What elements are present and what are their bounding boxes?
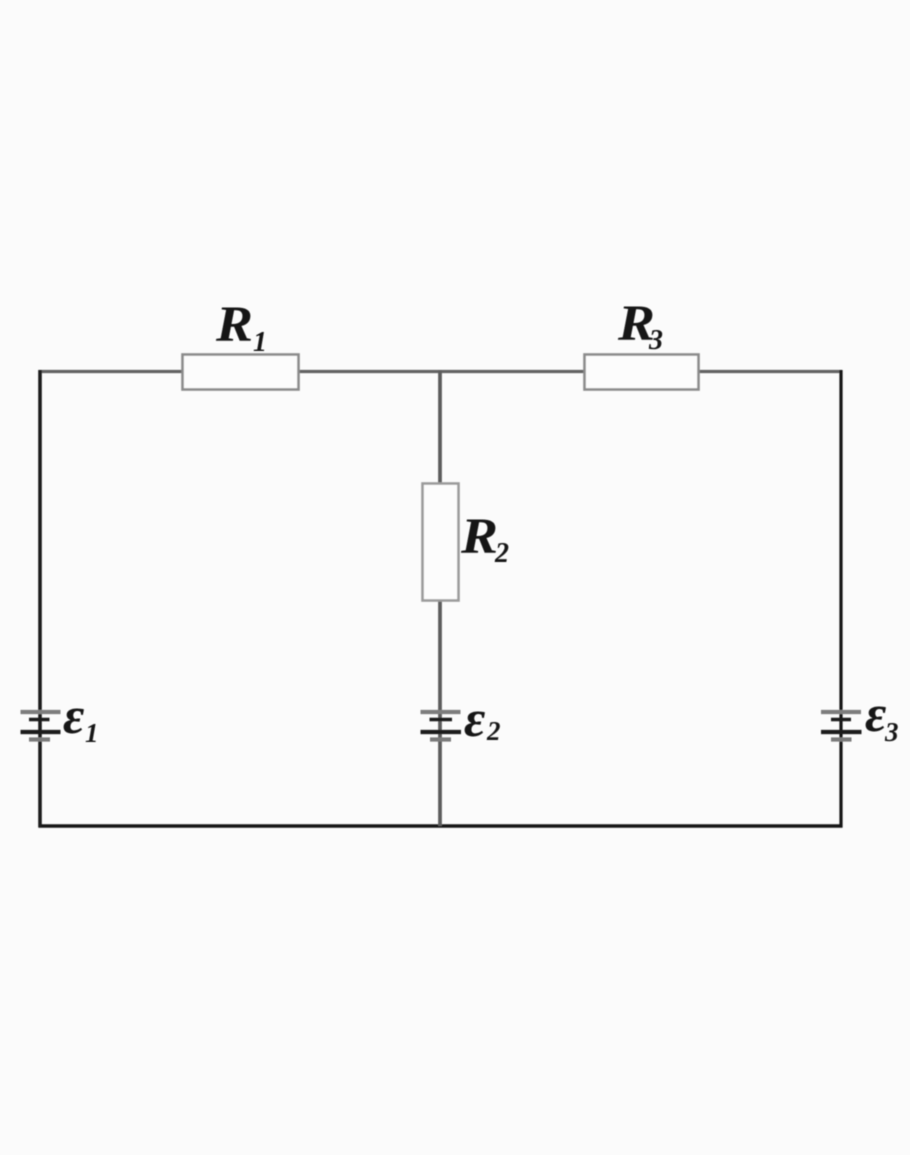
svg-text:ε: ε — [464, 691, 485, 748]
svg-text:3: 3 — [884, 717, 899, 747]
svg-text:ε: ε — [865, 686, 886, 743]
svg-text:R: R — [460, 509, 498, 565]
svg-text:R: R — [215, 297, 253, 353]
svg-text:2: 2 — [486, 716, 501, 746]
svg-text:ε: ε — [63, 688, 84, 745]
svg-text:3: 3 — [648, 325, 663, 356]
svg-text:1: 1 — [253, 327, 267, 358]
svg-text:1: 1 — [85, 718, 99, 748]
svg-text:2: 2 — [494, 538, 509, 569]
